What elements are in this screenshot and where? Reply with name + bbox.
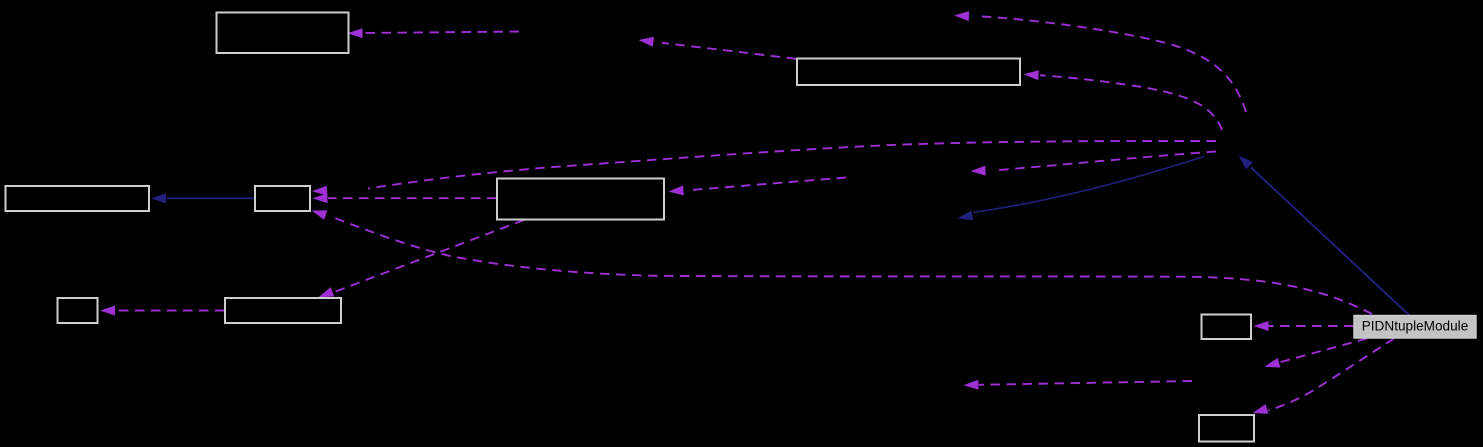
- box: empty node small mid: [255, 186, 310, 211]
- edge: hidden node to box1 (dashed usage arrow): [348, 28, 520, 38]
- box: empty node right small lower: [1199, 415, 1254, 442]
- edge: hub to middle hidden node (dashed arrow): [971, 152, 1217, 176]
- edge: PIDNtupleModule to lower hidden node (dashed arrow): [1265, 339, 1368, 368]
- edge: box4 to box3 (solid blue inheritance arrow): [151, 193, 255, 203]
- edge: middle hidden node to box5 (dashed arrow): [669, 178, 847, 196]
- edge: box5 to box4 (horizontal dashed arrow): [313, 193, 497, 203]
- edge: hub to box2 (curved dashed arrow): [1024, 70, 1223, 130]
- edge: box5 to box7 (diagonal dashed arrow): [319, 220, 525, 297]
- box: empty node mid-left: [6, 186, 150, 211]
- svg-text:PIDNtupleModule: PIDNtupleModule: [1362, 318, 1469, 333]
- edge: lower hidden node chain leftward (long dashed arrow): [964, 380, 1193, 390]
- box: empty node bottom-left small: [58, 298, 98, 323]
- edge: PIDNtupleModule to hub (solid blue inheritance arrow): [1239, 156, 1410, 316]
- edge: box2 to hidden node (dashed usage arrow): [639, 37, 797, 59]
- edge: hub to left hidden node (curved solid blue arrow): [958, 157, 1205, 221]
- edge: PIDNtupleModule to box4 bottom (long curved dashed arrow): [312, 210, 1373, 314]
- edge: PIDNtupleModule to box8 (horizontal dashed arrow): [1254, 321, 1354, 331]
- edge: PIDNtupleModule to box9 (curved dashed arrow): [1253, 339, 1395, 414]
- box: empty node top-middle: [797, 59, 1020, 86]
- node PIDNtupleModule (highlighted grey box): [1354, 316, 1476, 339]
- box: empty node bottom-left: [225, 298, 341, 323]
- edge: hub to box4 upper (long curved dashed arrow): [312, 141, 1216, 196]
- box: empty node top-left: [217, 13, 349, 54]
- edge: hub to upper hidden node (curved dashed arrow): [954, 11, 1246, 112]
- edge: box7 to box6 (horizontal dashed arrow): [100, 306, 225, 316]
- box: empty node right small upper: [1202, 315, 1252, 340]
- box: empty node center: [497, 179, 664, 220]
